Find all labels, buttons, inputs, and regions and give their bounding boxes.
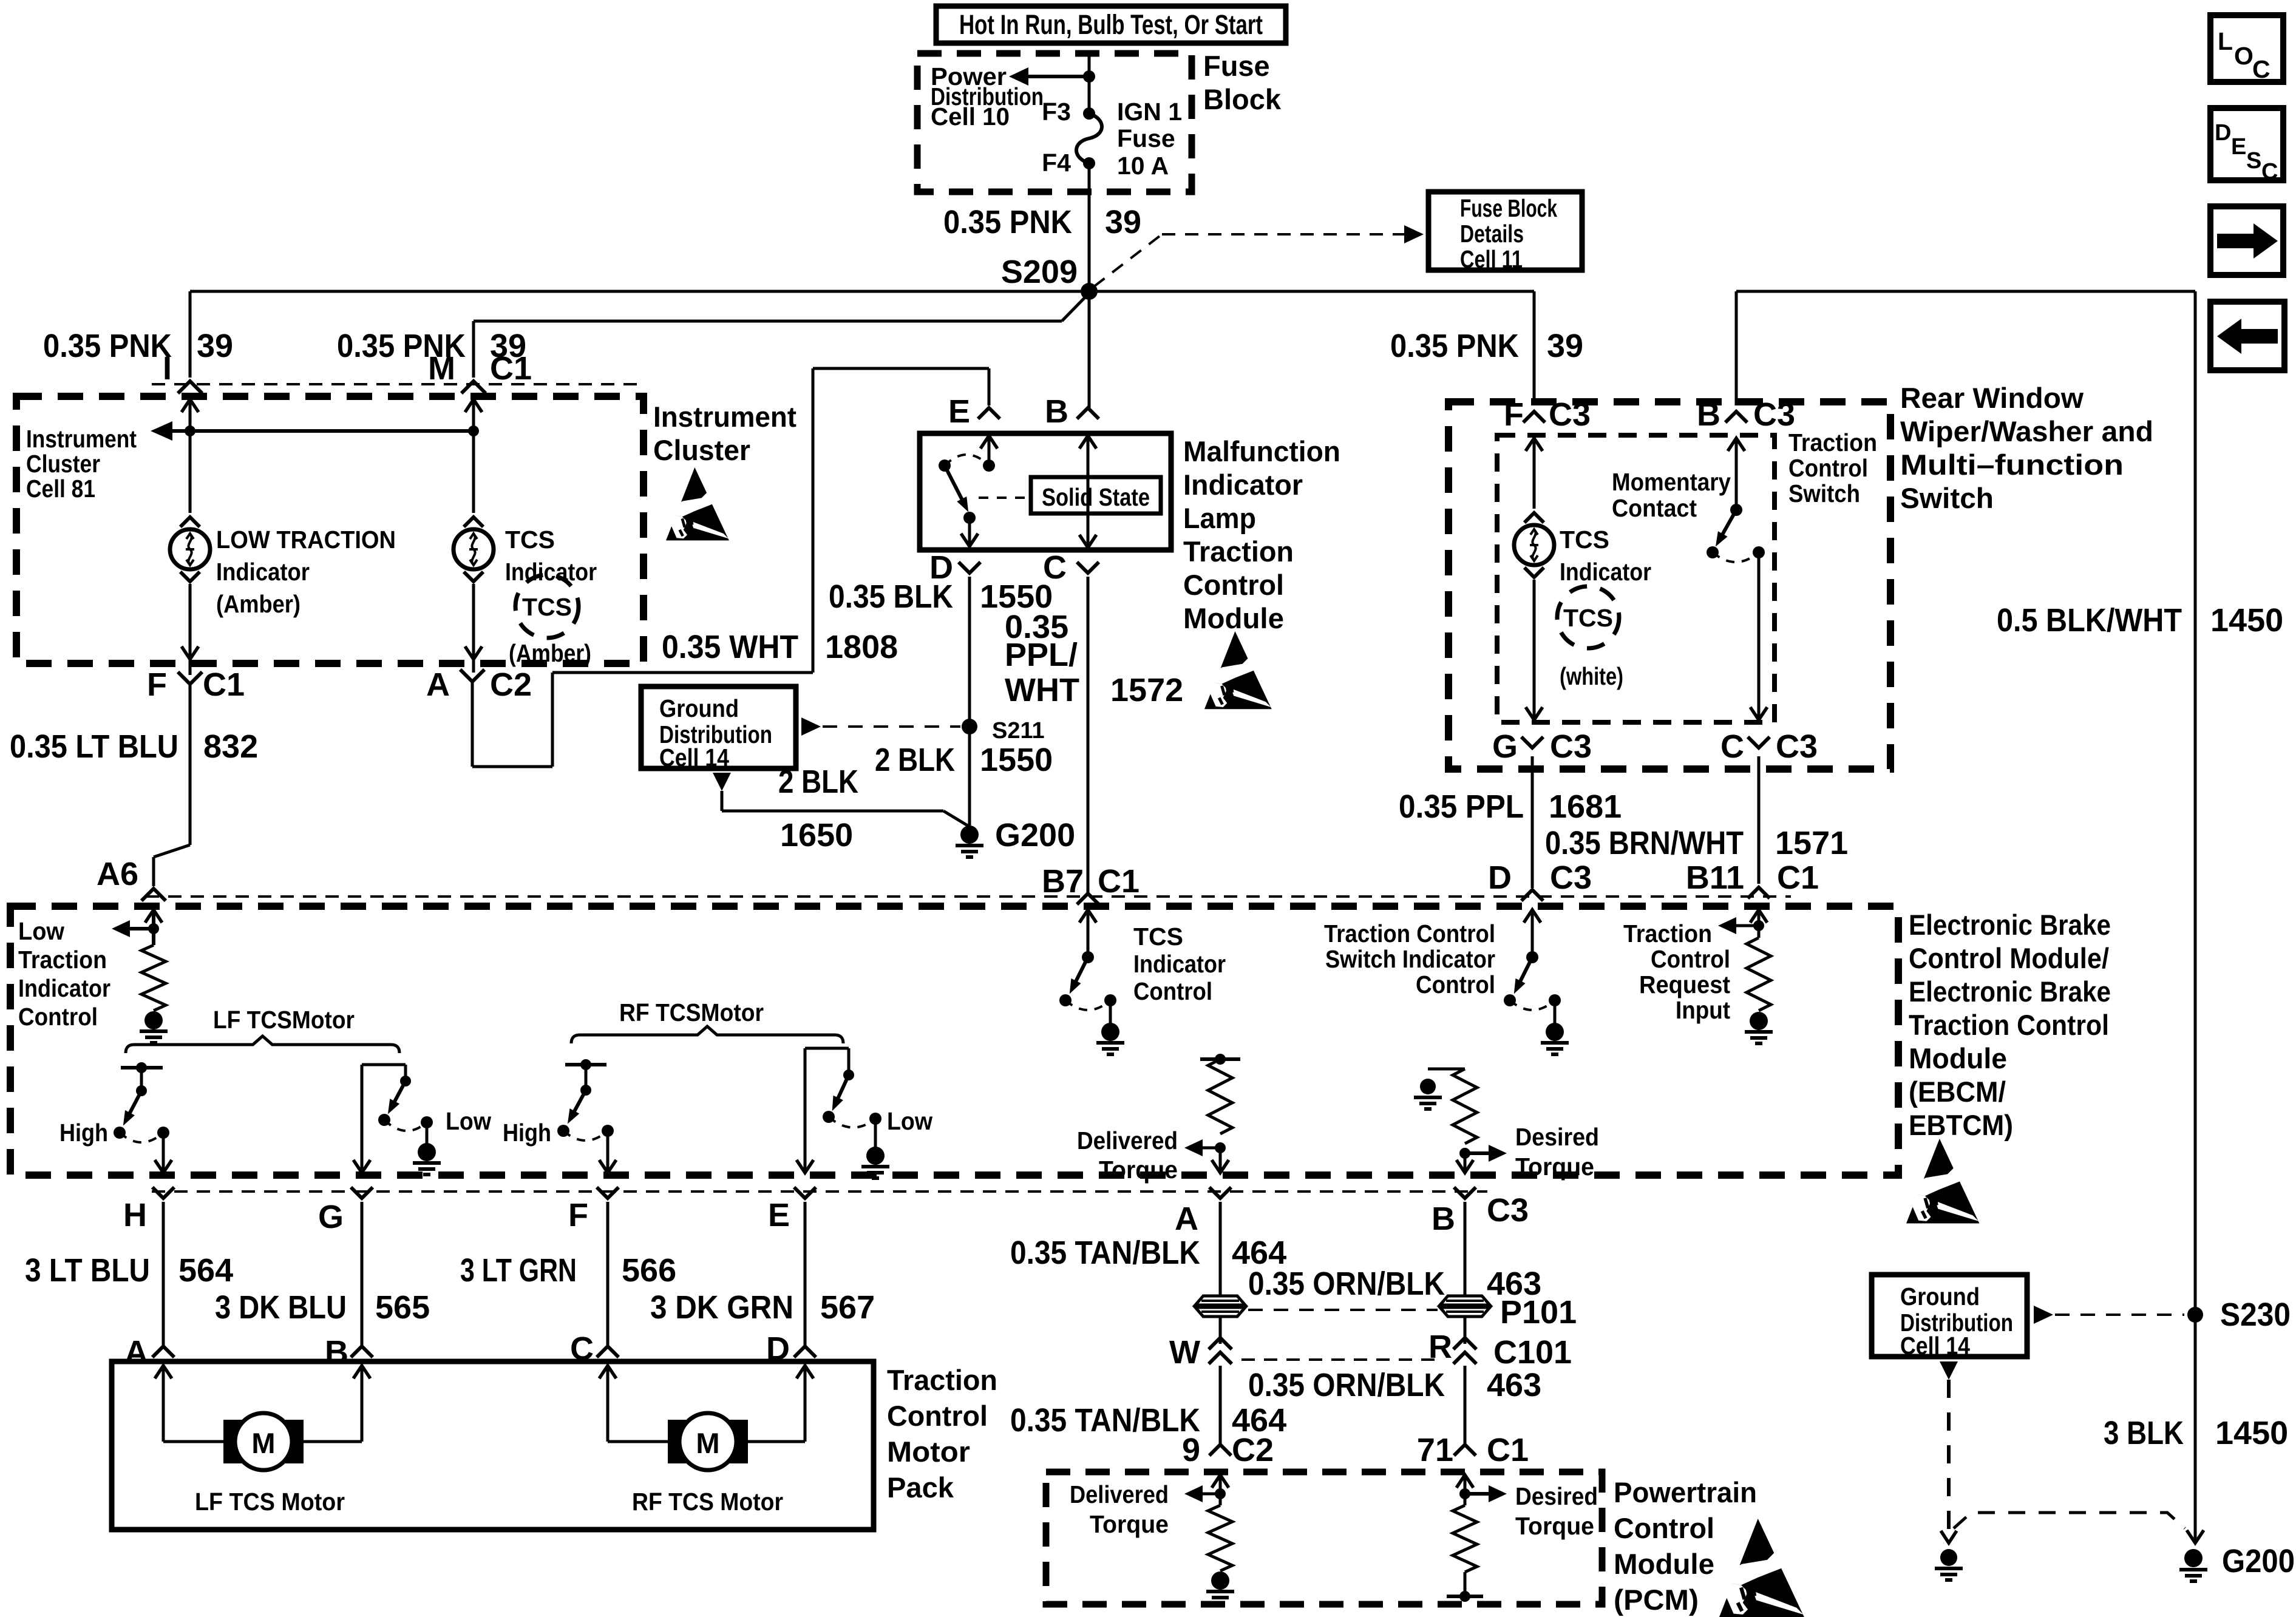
wire: PPL 1681 from G/C3 to EBCM D/C3 [1531, 756, 1534, 888]
svg-text:Indicator: Indicator [1183, 469, 1303, 501]
wire: M wire inside cluster down to TCS lamp [465, 399, 482, 412]
resistor: desired torque (PCM) [1456, 1475, 1473, 1488]
brace: LF TCS motor group [126, 1036, 399, 1053]
svg-text:Delivered: Delivered [1077, 1127, 1178, 1154]
svg-text:Indicator: Indicator [1560, 558, 1651, 586]
wire: ORN/BLK below P101 to R [1464, 1317, 1467, 1344]
svg-text:G: G [1492, 728, 1518, 765]
lamp: TCS Indicator (rear wiper) [1526, 438, 1543, 451]
svg-text:1450: 1450 [2210, 602, 2283, 639]
svg-text:Indicator: Indicator [1133, 950, 1226, 978]
instrument cluster dashed box [16, 396, 644, 663]
svg-text:Indicator: Indicator [216, 558, 310, 586]
wire: TAN/BLK 464 from W to PCM 9 [1219, 1366, 1222, 1446]
svg-text:C3: C3 [1487, 1192, 1529, 1229]
svg-text:PPL/: PPL/ [1005, 637, 1078, 673]
svg-text:Block: Block [1203, 83, 1282, 115]
icon box: LOC [2210, 15, 2283, 82]
svg-text:(Amber): (Amber) [216, 590, 301, 618]
svg-text:Traction: Traction [1623, 920, 1712, 947]
wire: BRN/WHT 1571 from C/C3 to EBCM B11 [1758, 756, 1761, 884]
svg-text:(PCM): (PCM) [1614, 1584, 1699, 1616]
switch: LF motor low side [362, 1063, 406, 1066]
svg-text:Indicator: Indicator [18, 974, 110, 1002]
svg-text:TCS: TCS [1560, 526, 1609, 554]
wire: 3 LT GRN 566 F to C [606, 1202, 610, 1345]
svg-text:Instrument: Instrument [26, 425, 137, 453]
svg-text:39: 39 [197, 328, 233, 364]
svg-text:C3: C3 [1776, 728, 1818, 765]
fuse block dashed box [917, 53, 1192, 192]
svg-text:Multi–function: Multi–function [1900, 449, 2124, 481]
ESD symbol: TCM [1204, 631, 1272, 709]
svg-text:High: High [59, 1119, 108, 1147]
thin dashed connector row at cluster top [152, 383, 644, 385]
svg-text:F3: F3 [1042, 98, 1071, 126]
reference triangle down (right ground distribution) [1940, 1361, 1958, 1380]
svg-text:Cluster: Cluster [653, 434, 750, 466]
svg-text:P101: P101 [1500, 1294, 1577, 1331]
wire: TCM B internal pass-through [1087, 436, 1090, 547]
svg-text:39: 39 [1547, 328, 1583, 364]
wire: TAN/BLK 464 from EBCM A down [1219, 1202, 1222, 1297]
svg-text:D: D [1488, 859, 1512, 896]
wire: BLK/WHT arrow into G200 [2187, 1530, 2204, 1543]
svg-text:TCS: TCS [505, 526, 555, 554]
svg-text:TCS: TCS [1133, 923, 1183, 951]
svg-text:RF TCS Motor: RF TCS Motor [632, 1488, 783, 1516]
svg-text:F: F [568, 1197, 588, 1233]
wire: 0.5 BLK/WHT 1450 right-side vertical [2194, 291, 2197, 1542]
svg-text:E: E [768, 1197, 790, 1233]
svg-text:D: D [2215, 120, 2231, 146]
switch: TCS indicator control [1079, 910, 1096, 923]
wire: S209 down to TCM connector B [1088, 291, 1091, 410]
svg-text:LF TCS Motor: LF TCS Motor [195, 1488, 345, 1516]
svg-text:Fuse: Fuse [1203, 50, 1270, 82]
svg-text:0.35 BRN/WHT: 0.35 BRN/WHT [1545, 825, 1744, 861]
svg-text:(Amber): (Amber) [509, 639, 591, 667]
svg-text:A: A [426, 666, 450, 703]
svg-text:1808: 1808 [825, 629, 898, 665]
module box: Malfunction Indicator Lamp Traction Control Module [920, 433, 1171, 550]
wire: BLK 1550 from TCM D to S211 and G200 [968, 577, 971, 825]
svg-text:0.35 TAN/BLK: 0.35 TAN/BLK [1010, 1235, 1200, 1271]
svg-text:Electronic Brake: Electronic Brake [1909, 909, 2111, 941]
svg-text:Desired: Desired [1515, 1482, 1598, 1510]
svg-text:Fuse: Fuse [1117, 124, 1175, 152]
EBCM dashed box [10, 906, 1898, 1175]
svg-text:Ground: Ground [1900, 1283, 1980, 1310]
svg-text:Low: Low [18, 917, 64, 945]
svg-text:Cell 10: Cell 10 [931, 103, 1010, 131]
svg-text:WHT: WHT [1005, 672, 1079, 708]
svg-text:C1: C1 [490, 350, 532, 387]
svg-text:C: C [1720, 728, 1744, 765]
svg-text:Delivered: Delivered [1070, 1480, 1169, 1508]
svg-text:RF TCSMotor: RF TCSMotor [619, 998, 764, 1026]
svg-text:566: 566 [622, 1252, 676, 1289]
svg-text:Cell 81: Cell 81 [26, 475, 95, 503]
svg-text:Powertrain: Powertrain [1614, 1476, 1757, 1508]
svg-text:3 LT GRN: 3 LT GRN [460, 1252, 577, 1289]
svg-text:2 BLK: 2 BLK [778, 764, 858, 800]
wire: fuse output down to S209 [1088, 163, 1091, 291]
svg-text:C2: C2 [490, 666, 532, 703]
wire: 3 DK GRN 567 E to D [804, 1202, 807, 1345]
svg-text:G: G [318, 1199, 344, 1235]
svg-text:0.35 WHT: 0.35 WHT [662, 629, 798, 665]
ground G200 (left) [960, 825, 979, 844]
svg-text:E: E [948, 393, 970, 430]
svg-text:Torque: Torque [1099, 1156, 1178, 1184]
svg-text:Torque: Torque [1515, 1512, 1594, 1540]
svg-text:B: B [325, 1334, 348, 1371]
resistor: delivered torque (EBCM) [1200, 1057, 1240, 1061]
svg-text:Indicator: Indicator [505, 558, 597, 586]
switch: LF motor high side [121, 1066, 163, 1070]
label box: Solid State [1031, 477, 1161, 514]
svg-text:M: M [428, 350, 455, 387]
svg-text:B7: B7 [1042, 863, 1084, 900]
resistor: low traction indicator driver [141, 945, 166, 1011]
label box: Hot In Run, Bulb Test, Or Start [936, 6, 1286, 43]
motor: LF TCS Motor [223, 1420, 242, 1463]
node: crossbar junction on M wire [468, 425, 479, 436]
node S209 splice [1081, 283, 1098, 300]
wire: RF high to connector F [606, 1131, 610, 1171]
wire: rear horizontal to right-side drop [1736, 290, 2195, 293]
wire: LF motor leads [162, 1366, 165, 1442]
svg-text:3 LT BLU: 3 LT BLU [25, 1252, 150, 1289]
svg-text:Control Module/: Control Module/ [1909, 942, 2109, 974]
svg-text:10 A: 10 A [1117, 152, 1169, 180]
svg-text:LOW TRACTION: LOW TRACTION [216, 526, 396, 554]
svg-text:Traction: Traction [887, 1364, 997, 1396]
symbol: TCS dashed circle (white) [1557, 586, 1619, 648]
wire: LF low to connector G [361, 1065, 364, 1171]
svg-text:Switch Indicator: Switch Indicator [1325, 945, 1495, 973]
svg-text:Control: Control [1416, 971, 1495, 998]
svg-text:Traction Control: Traction Control [1909, 1009, 2109, 1041]
pass-through P101 (left) [1195, 1296, 1245, 1305]
svg-text:0.35 BLK: 0.35 BLK [829, 578, 953, 615]
reference triangle down from ground distribution box [713, 773, 731, 791]
wire: LF high to connector H [162, 1133, 165, 1171]
wire: S209 horizontal to instrument cluster (left) [190, 290, 1089, 293]
ESD symbol: instrument cluster [666, 467, 729, 540]
svg-text:B11: B11 [1686, 859, 1744, 896]
switch: momentary contact [1728, 438, 1745, 451]
svg-text:Contact: Contact [1612, 494, 1697, 522]
resistor: delivered torque (PCM) [1212, 1475, 1229, 1488]
svg-text:Control: Control [1614, 1512, 1714, 1544]
svg-text:Control: Control [1788, 454, 1868, 482]
svg-text:EBTCM): EBTCM) [1909, 1109, 2013, 1141]
svg-text:463: 463 [1487, 1367, 1541, 1403]
svg-text:832: 832 [203, 728, 258, 765]
wire: 2 BLK 1650 to G200 [721, 791, 724, 811]
svg-text:1681: 1681 [1549, 788, 1622, 825]
svg-text:Torque: Torque [1515, 1153, 1594, 1181]
svg-text:Control: Control [18, 1003, 98, 1031]
motor: RF TCS Motor [668, 1420, 686, 1463]
svg-text:G200: G200 [995, 817, 1075, 853]
svg-text:Control: Control [1183, 569, 1284, 601]
wire: TAN/BLK below P101 to W [1219, 1317, 1222, 1344]
ESD symbol: PCM [1719, 1519, 1804, 1617]
icon box: arrow left [2210, 302, 2284, 370]
svg-text:1450: 1450 [2215, 1415, 2288, 1451]
icon box: arrow right [2210, 206, 2283, 275]
svg-text:Traction: Traction [1788, 429, 1877, 456]
wire: RF low to connector E [804, 1048, 807, 1171]
svg-text:Traction: Traction [18, 946, 107, 974]
svg-text:Instrument: Instrument [653, 401, 796, 433]
svg-text:G200: G200 [2222, 1543, 2295, 1579]
node S211 splice [962, 719, 977, 734]
svg-text:Fuse Block: Fuse Block [1460, 194, 1557, 222]
svg-text:Hot In Run, Bulb Test, Or Star: Hot In Run, Bulb Test, Or Start [959, 9, 1263, 40]
wire: battery feed into fuse block [1088, 53, 1091, 114]
svg-text:A6: A6 [97, 856, 138, 892]
svg-text:0.35 PPL: 0.35 PPL [1399, 788, 1524, 825]
svg-text:M: M [696, 1427, 719, 1459]
dashed reference: ground distribution to S230 [2034, 1306, 2053, 1324]
svg-text:Module: Module [1183, 602, 1284, 634]
ground distribution reference box Cell 14 [641, 686, 796, 768]
svg-text:C: C [2252, 55, 2271, 83]
svg-text:0.35 ORN/BLK: 0.35 ORN/BLK [1248, 1367, 1445, 1403]
wire: M wire from S209 branch into cluster [472, 321, 475, 378]
svg-text:1650: 1650 [780, 817, 853, 853]
svg-text:Input: Input [1676, 996, 1730, 1024]
svg-text:S: S [2246, 148, 2261, 174]
svg-text:Cluster: Cluster [26, 450, 100, 478]
svg-text:Request: Request [1639, 971, 1730, 998]
svg-text:LF TCSMotor: LF TCSMotor [213, 1006, 355, 1034]
wire: TCS lamp to connector A [472, 584, 475, 673]
svg-text:C3: C3 [1550, 859, 1592, 896]
wire: LT BLU 832 from F/C1 down with jog to A6 [189, 684, 192, 845]
svg-text:L: L [2218, 27, 2233, 55]
svg-text:TCS: TCS [522, 593, 572, 621]
module box: Traction Control Motor Pack [112, 1361, 874, 1530]
svg-text:W: W [1169, 1334, 1200, 1371]
svg-text:Rear Window: Rear Window [1900, 382, 2084, 414]
ground distribution reference box Cell 14 (right) [1872, 1275, 2027, 1357]
svg-text:Traction: Traction [1183, 535, 1294, 568]
svg-text:1572: 1572 [1110, 672, 1183, 708]
svg-text:C101: C101 [1493, 1334, 1572, 1371]
pass-through P101 (right) [1440, 1296, 1490, 1305]
svg-text:H: H [123, 1197, 147, 1233]
svg-text:S209: S209 [1001, 254, 1078, 290]
wire: ORN/BLK 463 from EBCM B down [1464, 1202, 1467, 1297]
svg-text:9: 9 [1182, 1432, 1200, 1468]
ground: ground distribution reference [1940, 1549, 1957, 1566]
wire: A6 into EBCM low traction driver [145, 910, 162, 923]
svg-text:0.35 PNK: 0.35 PNK [943, 204, 1072, 240]
wire: arrow to power distribution [1025, 75, 1089, 78]
svg-text:Switch: Switch [1900, 482, 1994, 514]
ground: LF low contact [426, 1122, 429, 1144]
svg-text:M: M [251, 1427, 275, 1459]
wire: cluster feed crossbar with arrow [170, 429, 474, 433]
thin dashed connector row EBCM top [146, 895, 1791, 898]
svg-text:Details: Details [1460, 220, 1524, 248]
svg-text:Lamp: Lamp [1183, 502, 1256, 534]
wire: LOW TRACTION lamp to connector F [189, 584, 192, 675]
svg-text:Cell 11: Cell 11 [1460, 245, 1523, 273]
svg-text:0.35 LT BLU: 0.35 LT BLU [10, 728, 178, 765]
wire: RF motor leads [606, 1366, 610, 1442]
wire: I wire from S209 into cluster [189, 291, 192, 378]
wire: 3 LT BLU 564 H to A [162, 1202, 165, 1345]
svg-text:3 DK BLU: 3 DK BLU [215, 1289, 347, 1326]
svg-text:S230: S230 [2220, 1297, 2291, 1333]
svg-text:(white): (white) [1560, 662, 1623, 690]
svg-text:Ground: Ground [659, 694, 739, 722]
svg-text:TCS: TCS [1563, 604, 1613, 632]
svg-text:S211: S211 [992, 718, 1045, 744]
dashed reference wire down to ground [1947, 1380, 1951, 1536]
svg-text:C2: C2 [1232, 1432, 1274, 1468]
svg-text:O: O [2234, 42, 2254, 70]
svg-text:71: 71 [1417, 1432, 1453, 1468]
svg-text:0.35 PNK: 0.35 PNK [1390, 328, 1519, 364]
svg-text:2 BLK: 2 BLK [875, 742, 955, 778]
svg-text:IGN 1: IGN 1 [1117, 98, 1182, 126]
svg-text:Torque: Torque [1090, 1510, 1169, 1538]
svg-text:C3: C3 [1550, 728, 1592, 765]
wire: S209 lower horizontal branch [474, 320, 1062, 323]
wire: 3 DK BLU 565 G to B [361, 1202, 364, 1345]
symbol: TCS dashed indicator circle (Amber) [515, 575, 579, 638]
ground G200 (right) [2184, 1549, 2203, 1567]
svg-text:Control: Control [1651, 945, 1730, 973]
thin dashed connector row C101 [1241, 1358, 1439, 1361]
svg-text:Cell 14: Cell 14 [1900, 1332, 1970, 1360]
brace: RF TCS motor group [571, 1026, 843, 1043]
node: crossbar junction on I wire [185, 425, 195, 436]
svg-text:E: E [2231, 134, 2246, 160]
dashed link between P101 grommets [1248, 1309, 1438, 1311]
svg-text:Switch: Switch [1788, 480, 1860, 507]
svg-text:Control: Control [1133, 977, 1212, 1005]
svg-text:F: F [147, 666, 167, 703]
dashed reference: ground distribution to S211 [801, 717, 821, 736]
svg-text:565: 565 [375, 1289, 430, 1326]
svg-text:Cell 14: Cell 14 [659, 744, 729, 771]
wire: WHT 1808 from A/C2 jog right and up to TCM E [471, 682, 474, 767]
svg-text:B: B [1432, 1201, 1455, 1237]
wire: S209 horizontal to rear wiper switch feed [1089, 290, 1534, 293]
svg-text:3 BLK: 3 BLK [2104, 1415, 2184, 1451]
svg-text:A: A [124, 1334, 148, 1371]
svg-text:F4: F4 [1042, 149, 1071, 177]
dashed reference: S209 to Fuse Block Details [1094, 234, 1162, 286]
svg-text:High: High [503, 1119, 551, 1147]
svg-text:Low: Low [446, 1107, 491, 1135]
wire: switch output down to C/C3 [1758, 552, 1761, 717]
resistor: traction control request input [1750, 910, 1767, 923]
svg-text:C1: C1 [1777, 859, 1819, 896]
svg-text:I: I [163, 350, 172, 387]
svg-text:0.5 BLK/WHT: 0.5 BLK/WHT [1997, 602, 2182, 639]
svg-text:Momentary: Momentary [1612, 468, 1731, 496]
svg-text:Solid State: Solid State [1042, 483, 1150, 511]
svg-text:0.35 PNK: 0.35 PNK [43, 328, 172, 364]
svg-text:A: A [1175, 1201, 1198, 1237]
rear wiper outer dashed box [1449, 402, 1890, 769]
svg-text:B: B [1045, 393, 1068, 430]
svg-text:(EBCM/: (EBCM/ [1909, 1076, 2006, 1108]
node: low traction indicator control tap [148, 923, 159, 934]
svg-text:564: 564 [178, 1252, 233, 1289]
switch: RF motor high side [565, 1063, 606, 1066]
icon box: DESC [2210, 108, 2283, 180]
svg-text:Wiper/Washer and: Wiper/Washer and [1900, 415, 2153, 447]
svg-text:Module: Module [1909, 1042, 2007, 1074]
svg-text:C: C [2261, 159, 2278, 185]
svg-text:Desired: Desired [1515, 1123, 1599, 1151]
wire: arrow to Low Traction Indicator Control [126, 927, 154, 931]
wire: momentary contact switch from B/C3 [1735, 291, 1738, 405]
svg-text:C1: C1 [1098, 863, 1140, 900]
svg-text:C3: C3 [1753, 396, 1795, 433]
thin dashed connector row EBCM bottom [152, 1190, 1487, 1193]
svg-text:567: 567 [820, 1289, 875, 1326]
label box: Fuse Block Details Cell 11 [1428, 192, 1582, 270]
svg-text:B: B [1697, 396, 1720, 433]
svg-text:Electronic Brake: Electronic Brake [1909, 975, 2111, 1008]
ground: RF low contact [874, 1119, 877, 1147]
PCM dashed box [1046, 1472, 1602, 1604]
rear wiper inner dashed box (switch) [1497, 435, 1775, 722]
switch: RF motor low side [805, 1047, 849, 1050]
fuse F1 IGN 1 10A [1076, 114, 1102, 163]
ESD symbol: EBCM [1906, 1139, 1979, 1224]
lamp: LOW TRACTION Indicator (Amber) [180, 517, 200, 527]
switch: traction control switch indicator control [1524, 910, 1541, 923]
dashed reference route to G200 [1954, 1513, 2185, 1528]
node: power distribution tap dot [1083, 70, 1095, 83]
dashed link to Solid State label [979, 497, 1026, 499]
svg-text:Low: Low [887, 1107, 932, 1135]
wire: I wire inside cluster down to LOW TRACTION lamp [182, 399, 199, 412]
lamp: TCS Indicator (cluster) [464, 517, 483, 527]
switch: TCM solid state switch [980, 436, 997, 449]
ground: low traction driver [144, 1011, 163, 1029]
svg-text:Module: Module [1614, 1548, 1714, 1580]
svg-text:39: 39 [1105, 204, 1141, 240]
svg-text:1550: 1550 [980, 742, 1053, 778]
svg-text:C1: C1 [1487, 1432, 1529, 1468]
svg-text:0.35 TAN/BLK: 0.35 TAN/BLK [1010, 1402, 1200, 1439]
resistor: desired torque (EBCM) [1428, 1068, 1465, 1071]
wire: PPL/WHT 1572 from TCM C to EBCM B7 [1087, 577, 1090, 892]
wire: ORN/BLK 463 from R to PCM 71 [1464, 1366, 1467, 1446]
svg-text:Traction Control: Traction Control [1324, 920, 1495, 947]
svg-text:0.35 ORN/BLK: 0.35 ORN/BLK [1248, 1266, 1445, 1302]
svg-text:3 DK GRN: 3 DK GRN [650, 1289, 793, 1326]
svg-text:1571: 1571 [1775, 825, 1848, 861]
svg-text:C1: C1 [203, 666, 245, 703]
node S230 splice [2187, 1307, 2203, 1323]
svg-text:Motor: Motor [887, 1436, 970, 1468]
svg-text:Malfunction: Malfunction [1183, 435, 1340, 467]
